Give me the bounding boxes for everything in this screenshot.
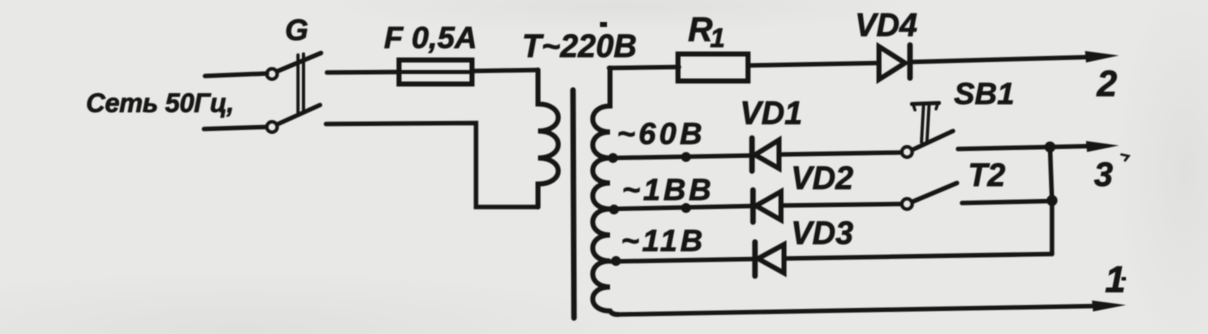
wire VD1 to SB1	[779, 153, 901, 155]
wire switch to fuse	[327, 70, 400, 75]
tick mark after 3	[1122, 155, 1129, 161]
node dot on 18V wire	[681, 203, 691, 213]
wire tap 18V to VD2	[610, 206, 753, 209]
svg-text:Сеть 50Гц,: Сеть 50Гц,	[86, 88, 234, 118]
switch G bottom contact circle	[267, 122, 277, 132]
diode VD4	[879, 47, 905, 80]
tick mark after 1	[1122, 277, 1127, 281]
wire secondary bottom to arrow 1	[618, 306, 1097, 315]
bus vertical wire	[1050, 147, 1052, 254]
fuse F0,5A body	[399, 60, 472, 84]
diode VD2	[750, 190, 756, 222]
wire fuse to transformer primary	[472, 70, 538, 71]
wire tap 11V to VD3	[610, 259, 755, 262]
wire mains bottom run	[326, 123, 538, 207]
wire R1 to VD4	[748, 63, 879, 66]
wire mains top left	[205, 74, 267, 77]
svg-text:1: 1	[710, 23, 725, 53]
svg-text:T2: T2	[968, 157, 1006, 193]
svg-text:F 0,5A: F 0,5A	[384, 20, 477, 55]
switch SB1 push-button actuator	[912, 103, 939, 104]
svg-text:3: 3	[1094, 156, 1113, 194]
switch T2 contact circle	[902, 199, 912, 209]
transformer T primary winding	[538, 70, 558, 207]
wire tap 60V to VD1	[610, 156, 752, 159]
node dot tap 60V	[608, 153, 618, 163]
svg-text:T~220В: T~220В	[522, 28, 637, 64]
svg-text:~11В: ~11В	[621, 223, 706, 258]
wire SB1 to node	[958, 147, 1050, 149]
transformer core	[573, 90, 574, 318]
node dot output 3	[1045, 142, 1056, 153]
wire T2 to bus	[962, 201, 1052, 203]
artifact dot above 0	[600, 22, 607, 27]
svg-text:SB1: SB1	[954, 76, 1014, 111]
wire mains bottom left	[204, 127, 266, 129]
svg-text:2: 2	[1096, 63, 1117, 104]
svg-text:VD1: VD1	[740, 95, 802, 131]
node dot on 60V wire	[681, 152, 691, 162]
diode VD1	[749, 138, 755, 171]
switch G bottom blade	[278, 105, 320, 124]
transformer secondary winding	[593, 68, 618, 315]
switch G top blade	[278, 53, 321, 71]
diode VD3	[752, 242, 758, 276]
svg-text:VD2: VD2	[791, 160, 853, 196]
switch SB1 contact circle	[902, 147, 912, 157]
node dot tap 11V	[611, 256, 621, 266]
wire node to arrow 3	[1050, 146, 1094, 147]
switch G top contact circle	[267, 69, 277, 79]
node dot tap 18V	[609, 205, 619, 215]
switch T2 blade	[913, 183, 957, 202]
svg-text:VD3: VD3	[791, 215, 853, 251]
svg-text:~1ВВ: ~1ВВ	[622, 172, 714, 207]
switch G mechanical link	[296, 55, 299, 114]
svg-text:~60В: ~60В	[617, 116, 706, 151]
switch SB1 blade	[913, 131, 953, 150]
node dot bus T2	[1047, 195, 1058, 206]
wire VD4 to output 2 with arrow	[911, 57, 1092, 62]
wire VD3 to bus	[784, 254, 1052, 259]
svg-text:G: G	[285, 14, 308, 47]
wire VD2 to T2	[781, 204, 901, 206]
svg-text:VD4: VD4	[855, 7, 917, 43]
fuse internal wire	[401, 70, 470, 74]
wire secondary top tap to R1	[609, 67, 679, 68]
resistor R1 body	[678, 54, 748, 81]
